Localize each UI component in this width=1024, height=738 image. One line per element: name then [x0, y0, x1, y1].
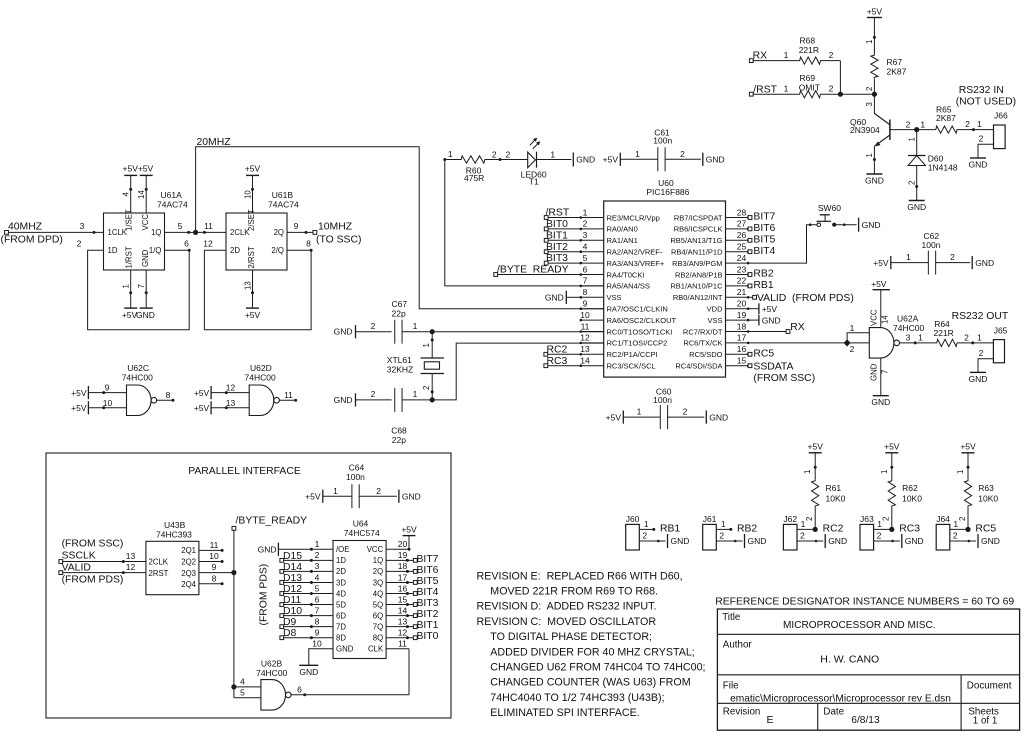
- svg-text:RE3/MCLR/Vpp: RE3/MCLR/Vpp: [607, 213, 660, 222]
- +5V supply top: [867, 6, 883, 17]
- svg-text:J66: J66: [994, 111, 1008, 121]
- wire 40MHZ to U61A pin3: [8, 221, 103, 234]
- node RC2: [823, 523, 844, 534]
- latch U64 74HC574: [333, 519, 386, 659]
- svg-text:GND: GND: [402, 491, 421, 501]
- wire U60 pin24 to SW60: [748, 223, 817, 263]
- svg-text:RS232 IN: RS232 IN: [959, 85, 1004, 96]
- svg-text:13: 13: [398, 616, 408, 626]
- wire U60 pin17 to U62A inputs: [748, 342, 847, 344]
- ground at U62A pin7: [870, 358, 891, 408]
- svg-text:8Q: 8Q: [373, 634, 383, 643]
- svg-text:1: 1: [315, 539, 320, 549]
- flip-flop U61B: [226, 190, 299, 270]
- capacitor C62 100n: [873, 231, 994, 275]
- svg-text:BIT0: BIT0: [546, 219, 568, 230]
- svg-text:E: E: [767, 714, 774, 726]
- svg-text:1: 1: [784, 50, 789, 60]
- svg-text:RB4/AN11/P1D: RB4/AN11/P1D: [671, 248, 723, 257]
- wire J62 pin1 to RC2: [797, 517, 818, 532]
- svg-text:221R: 221R: [934, 328, 954, 338]
- svg-text:RS232 OUT: RS232 OUT: [952, 311, 1009, 322]
- svg-text:5: 5: [583, 253, 588, 263]
- node D11 input to U64: [280, 595, 333, 607]
- U61A pins 1,7 bottom to +5V GND: [122, 270, 155, 320]
- svg-text:7: 7: [583, 276, 588, 286]
- svg-text:1: 1: [422, 343, 431, 347]
- node D10 input to U64: [280, 606, 333, 618]
- svg-text:GND: GND: [136, 310, 155, 320]
- svg-text:BIT4: BIT4: [417, 587, 439, 598]
- label RS232 OUT: [952, 311, 1009, 322]
- svg-text:(FROM SSC): (FROM SSC): [753, 373, 815, 384]
- svg-text:RB2/AN8/P1B: RB2/AN8/P1B: [675, 270, 723, 279]
- svg-text:2: 2: [965, 119, 970, 129]
- svg-text:10: 10: [243, 190, 252, 199]
- svg-text:GND: GND: [905, 536, 924, 546]
- connector J61: [703, 514, 717, 550]
- svg-text:RC3: RC3: [899, 523, 920, 534]
- svg-text:2: 2: [979, 348, 984, 358]
- svg-text:1: 1: [721, 519, 726, 529]
- svg-text:5: 5: [240, 687, 245, 697]
- svg-text:RC2: RC2: [823, 523, 844, 534]
- svg-text:2: 2: [829, 84, 834, 94]
- svg-text:9: 9: [105, 383, 110, 393]
- svg-text:GND: GND: [709, 412, 728, 422]
- wire J64 pin1 to RC5: [950, 517, 971, 532]
- svg-text:+5V: +5V: [194, 388, 210, 398]
- svg-text:1D: 1D: [336, 556, 346, 565]
- svg-text:MICROPROCESSOR AND MISC.: MICROPROCESSOR AND MISC.: [783, 620, 936, 631]
- svg-text:J64: J64: [936, 514, 950, 524]
- svg-text:2: 2: [829, 50, 834, 60]
- svg-text:BIT3: BIT3: [417, 598, 439, 609]
- svg-text:+5V: +5V: [123, 164, 139, 174]
- node VALID input: [59, 562, 146, 586]
- capacitor C64 100n: [305, 463, 421, 509]
- wires U62B inputs 4,5: [234, 677, 261, 698]
- svg-text:3: 3: [865, 102, 874, 106]
- svg-text:2Q: 2Q: [274, 228, 284, 237]
- svg-text:5: 5: [315, 583, 320, 593]
- node D14 input to U64: [280, 562, 333, 574]
- svg-text:PARALLEL INTERFACE: PARALLEL INTERFACE: [188, 466, 301, 477]
- svg-text:1Q: 1Q: [373, 556, 383, 565]
- svg-text:9: 9: [294, 221, 299, 231]
- node 40MHZ input: [1, 222, 63, 246]
- svg-text:VCC: VCC: [870, 309, 879, 326]
- svg-text:1/Q: 1/Q: [149, 246, 162, 255]
- node BIT0: [544, 219, 581, 231]
- node 20MHZ: [193, 137, 231, 235]
- U62D output 11: [279, 390, 297, 402]
- junction U62A inputs: [844, 339, 851, 346]
- svg-text:18: 18: [398, 561, 408, 571]
- svg-text:10K0: 10K0: [826, 494, 846, 504]
- ground at U64 pin10: [299, 649, 333, 677]
- svg-text:1Q: 1Q: [151, 228, 161, 237]
- svg-text:GND: GND: [141, 249, 150, 267]
- svg-text:GND: GND: [671, 536, 690, 546]
- svg-text:5D: 5D: [336, 600, 346, 609]
- svg-text:SW60: SW60: [818, 203, 841, 213]
- svg-text:CHANGED COUNTER (WAS U63) FROM: CHANGED COUNTER (WAS U63) FROM: [490, 677, 690, 689]
- node RB2 at U60 pin23: [748, 269, 774, 280]
- svg-text:2Q3: 2Q3: [181, 569, 196, 578]
- node /RST: [544, 208, 581, 220]
- svg-text:RC0/T1OSO/T1CKI: RC0/T1OSO/T1CKI: [607, 327, 673, 336]
- svg-text:28: 28: [737, 207, 747, 217]
- wire PIC pin7 to R60: [443, 149, 603, 286]
- svg-text:GND: GND: [981, 536, 1000, 546]
- svg-text:2: 2: [680, 149, 685, 159]
- svg-text:3: 3: [906, 333, 911, 343]
- svg-text:SSCLK: SSCLK: [62, 550, 96, 561]
- svg-text:GND: GND: [969, 160, 988, 170]
- wire U61A feedback 1/Q to 1D: [77, 239, 191, 330]
- svg-text:2: 2: [800, 531, 805, 541]
- counter U43B 74HC393: [146, 520, 199, 595]
- svg-text:RA6/OSC2/CLKOUT: RA6/OSC2/CLKOUT: [607, 316, 677, 325]
- svg-text:10: 10: [209, 551, 219, 561]
- svg-text:2K87: 2K87: [936, 113, 956, 123]
- svg-text:74HC393: 74HC393: [156, 530, 192, 540]
- U61B +5V pin 10 top: [243, 164, 260, 214]
- svg-text:RC4/SDI/SDA: RC4/SDI/SDA: [675, 362, 722, 371]
- svg-text:BIT1: BIT1: [417, 620, 439, 631]
- wire /BYTE_READY vertical: [231, 530, 236, 698]
- svg-text:74HC00: 74HC00: [245, 372, 276, 382]
- svg-text:6: 6: [184, 239, 189, 249]
- svg-text:T1: T1: [529, 177, 539, 187]
- svg-text:22: 22: [737, 276, 747, 286]
- svg-text:12: 12: [203, 239, 213, 249]
- svg-text:12: 12: [398, 628, 408, 638]
- svg-text:D8: D8: [283, 628, 297, 639]
- svg-text:20: 20: [737, 299, 747, 309]
- svg-text:3: 3: [315, 561, 320, 571]
- svg-text:74HC4040 TO 1/2 74HC393 (U43B): 74HC4040 TO 1/2 74HC393 (U43B);: [490, 692, 664, 704]
- node BIT2 output of U64: [386, 609, 439, 620]
- svg-text:+5V: +5V: [603, 155, 619, 165]
- wire U61A pin5 to 20MHZ node: [165, 221, 196, 234]
- resistor R61 10K0: [803, 453, 845, 530]
- node BIT6 output of U64: [386, 565, 439, 576]
- svg-text:6Q: 6Q: [373, 611, 383, 620]
- svg-text:1 of 1: 1 of 1: [973, 716, 998, 727]
- svg-text:GND: GND: [299, 667, 318, 677]
- svg-text:+5V: +5V: [71, 403, 87, 413]
- ground at J63: [902, 534, 924, 548]
- svg-text:100n: 100n: [922, 240, 941, 250]
- U62C output 8: [156, 390, 174, 402]
- svg-text:/OE: /OE: [336, 545, 349, 554]
- wire U43B output 2Q2: [199, 551, 224, 563]
- node BIT3 output of U64: [386, 598, 439, 609]
- U60 right pin stubs: [726, 216, 750, 367]
- wire XTAL2 to PIC pin12: [432, 343, 604, 400]
- svg-text:2: 2: [583, 219, 588, 229]
- svg-text:+5V: +5V: [960, 442, 976, 452]
- svg-text:(FROM SSC): (FROM SSC): [62, 539, 124, 550]
- wire J65 pin2 to ground: [978, 348, 993, 372]
- svg-text:2: 2: [906, 119, 911, 129]
- svg-text:GND: GND: [865, 176, 884, 186]
- svg-text:2: 2: [865, 87, 874, 91]
- svg-text:6/8/13: 6/8/13: [851, 715, 880, 726]
- node D15 input to U64: [280, 551, 333, 563]
- svg-text:+5V: +5V: [606, 412, 622, 422]
- svg-text:2: 2: [907, 181, 916, 185]
- revision notes text: [477, 570, 706, 719]
- node BIT3: [544, 253, 581, 265]
- wire U43B output 2Q4: [199, 573, 224, 585]
- node XTAL1 junction: [430, 329, 435, 334]
- node BIT7 at U60 pin28: [748, 212, 775, 223]
- svg-text:2: 2: [950, 252, 955, 262]
- U60 pin numbers left: [580, 207, 590, 365]
- svg-text:RA3/AN3/VREF+: RA3/AN3/VREF+: [607, 259, 665, 268]
- svg-text:1: 1: [448, 149, 453, 159]
- node RB1: [660, 523, 680, 534]
- svg-text:1: 1: [865, 153, 874, 157]
- switch SW60: [817, 203, 842, 227]
- svg-text:32KHZ: 32KHZ: [387, 365, 413, 375]
- resistor R62 10K0: [880, 453, 922, 530]
- node D9 input to U64: [280, 617, 333, 629]
- svg-text:11: 11: [398, 639, 407, 649]
- svg-text:11: 11: [284, 390, 293, 400]
- svg-text:RC2: RC2: [547, 344, 568, 355]
- +5V above R63: [960, 442, 976, 453]
- svg-text:9: 9: [583, 299, 588, 309]
- svg-text:VCC: VCC: [367, 545, 384, 554]
- node BIT4 at U60 pin25: [748, 246, 775, 257]
- svg-text:/BYTE_READY: /BYTE_READY: [497, 265, 569, 276]
- svg-text:GND: GND: [334, 395, 353, 405]
- svg-text:(FROM DPD): (FROM DPD): [1, 235, 63, 246]
- svg-text:1/RST: 1/RST: [125, 246, 134, 268]
- U62C input 9 +5V: [71, 383, 126, 400]
- svg-text:R67: R67: [887, 57, 903, 67]
- svg-text:2: 2: [958, 517, 967, 521]
- svg-text:+5V: +5V: [401, 524, 417, 534]
- connector J64: [936, 514, 950, 550]
- svg-text:6: 6: [315, 594, 320, 604]
- wire J60 pin2 to ground: [639, 531, 665, 543]
- svg-text:U62A: U62A: [897, 313, 919, 323]
- wire J63 pin1 to RC3: [874, 517, 895, 532]
- wire junction to Q60 collector node: [840, 92, 877, 97]
- node XTAL2 junction: [430, 397, 435, 402]
- transistor Q60 2N3904: [850, 94, 890, 174]
- svg-text:1: 1: [865, 40, 874, 44]
- svg-text:2Q: 2Q: [373, 567, 383, 576]
- svg-text:3D: 3D: [336, 578, 346, 587]
- svg-text:REVISION D: ADDED RS232 INPUT: REVISION D: ADDED RS232 INPUT.: [477, 601, 657, 613]
- wire J63 pin2 to ground: [874, 531, 900, 543]
- svg-text:/BYTE_READY: /BYTE_READY: [236, 515, 308, 526]
- connector J65: [993, 326, 1007, 363]
- resistor R63 10K0: [956, 453, 998, 530]
- svg-text:BIT6: BIT6: [753, 223, 775, 234]
- svg-text:RC7/RX/DT: RC7/RX/DT: [683, 327, 723, 336]
- svg-text:2: 2: [805, 517, 814, 521]
- node BIT7 output of U64: [386, 554, 439, 565]
- svg-text:2: 2: [77, 239, 82, 249]
- svg-text:10K0: 10K0: [978, 494, 998, 504]
- svg-text:RB6/ICSPCLK: RB6/ICSPCLK: [674, 225, 723, 234]
- svg-text:5: 5: [178, 221, 183, 231]
- svg-text:1N4148: 1N4148: [928, 163, 958, 173]
- svg-text:BIT7: BIT7: [417, 554, 439, 565]
- svg-text:15: 15: [737, 356, 747, 366]
- wire J60 pin1 to RB1: [639, 519, 655, 531]
- svg-text:R68: R68: [800, 36, 816, 46]
- svg-text:5Q: 5Q: [373, 600, 383, 609]
- svg-text:1: 1: [850, 323, 855, 333]
- svg-text:2: 2: [964, 332, 969, 342]
- label RS232 IN: [956, 85, 1016, 107]
- svg-text:RB1: RB1: [753, 280, 773, 291]
- junction Q60 base / D60 / R65: [914, 127, 919, 132]
- svg-text:19: 19: [737, 310, 747, 320]
- wire U43B output 2Q1: [199, 540, 224, 552]
- node /RST input: [749, 84, 777, 96]
- svg-text:4: 4: [122, 192, 131, 197]
- svg-text:RB1: RB1: [660, 523, 680, 534]
- svg-text:CHANGED U62 FROM 74HC04 TO 74H: CHANGED U62 FROM 74HC04 TO 74HC00;: [490, 662, 705, 674]
- svg-text:8D: 8D: [336, 634, 346, 643]
- svg-text:3: 3: [583, 230, 588, 240]
- svg-text:12: 12: [126, 562, 136, 572]
- svg-text:16: 16: [737, 344, 747, 354]
- svg-text:2Q2: 2Q2: [181, 557, 196, 566]
- svg-text:13: 13: [126, 551, 136, 561]
- svg-text:RA7/OSC1/CLKIN: RA7/OSC1/CLKIN: [607, 305, 668, 314]
- wire SW60 to ground: [834, 223, 856, 226]
- svg-text:1: 1: [644, 519, 649, 529]
- nand gate U62A 74HC00: [869, 313, 924, 358]
- wire U64 CLK pin11: [386, 648, 409, 650]
- svg-text:6D: 6D: [336, 611, 346, 620]
- U64 pin numbers: [312, 539, 407, 648]
- svg-text:VALID (FROM PDS): VALID (FROM PDS): [757, 293, 854, 304]
- svg-text:25: 25: [737, 242, 747, 252]
- svg-text:RB2: RB2: [753, 269, 773, 280]
- svg-text:RC5: RC5: [975, 523, 996, 534]
- junction R68/R69: [838, 92, 843, 97]
- svg-text:4: 4: [583, 242, 588, 252]
- capacitor C67: [334, 299, 433, 344]
- svg-text:RA2/AN2/VREF-: RA2/AN2/VREF-: [607, 248, 663, 257]
- svg-text:7: 7: [137, 284, 146, 288]
- svg-text:14: 14: [881, 315, 890, 324]
- svg-text:4: 4: [240, 677, 245, 687]
- node D13 input to U64: [280, 573, 333, 585]
- svg-text:GND: GND: [334, 327, 353, 337]
- wires U62A inputs 1,2: [847, 323, 869, 354]
- resistor R67 2K87: [865, 18, 907, 95]
- svg-text:1: 1: [583, 207, 588, 217]
- svg-text:GND: GND: [762, 315, 781, 325]
- +5V above R62: [884, 442, 900, 453]
- svg-text:+5V: +5V: [245, 310, 261, 320]
- svg-text:(NOT USED): (NOT USED): [956, 96, 1016, 107]
- svg-text:D11: D11: [283, 595, 302, 606]
- svg-text:SSDATA: SSDATA: [753, 362, 793, 373]
- svg-text:24: 24: [737, 253, 747, 263]
- svg-text:D12: D12: [283, 584, 302, 595]
- svg-text:2: 2: [371, 321, 376, 331]
- svg-text:REVISION E: REPLACED R66 WITH: REVISION E: REPLACED R66 WITH D60,: [477, 570, 683, 582]
- svg-text:GND: GND: [336, 645, 354, 654]
- svg-text:GND: GND: [576, 155, 595, 165]
- nand gate U62D: [245, 363, 280, 416]
- +5V at U60 pin20: [748, 303, 777, 314]
- svg-text:16: 16: [398, 583, 408, 593]
- svg-text:2: 2: [371, 389, 376, 399]
- svg-text:40MHZ: 40MHZ: [8, 222, 43, 233]
- wire J66 pin2 to ground: [978, 134, 994, 158]
- svg-text:2: 2: [953, 531, 958, 541]
- +5V above R61: [808, 442, 824, 453]
- svg-text:Title: Title: [722, 612, 741, 623]
- svg-text:+5V: +5V: [873, 258, 889, 268]
- node /BYTE_READY at U60 pin6: [494, 265, 581, 277]
- svg-text:1: 1: [918, 333, 923, 343]
- capacitor C60 100n: [606, 387, 729, 430]
- svg-text:1: 1: [550, 149, 555, 159]
- svg-text:+5V: +5V: [71, 388, 87, 398]
- ground at J62: [825, 534, 847, 548]
- ground at J64: [978, 534, 1000, 548]
- svg-text:+5V: +5V: [762, 304, 778, 314]
- svg-text:BIT2: BIT2: [417, 609, 439, 620]
- svg-text:ELIMINATED SPI INTERFACE.: ELIMINATED SPI INTERFACE.: [490, 707, 639, 719]
- svg-text:100n: 100n: [346, 472, 365, 482]
- connector J62: [783, 514, 797, 550]
- parallel interface enclosure: [46, 453, 451, 718]
- wire U62A output pin3: [900, 333, 936, 345]
- svg-text:13: 13: [580, 344, 590, 354]
- svg-text:BIT3: BIT3: [546, 253, 568, 264]
- svg-text:1/SET: 1/SET: [125, 209, 134, 231]
- svg-text:1D: 1D: [108, 246, 118, 255]
- svg-text:Revision: Revision: [723, 707, 761, 718]
- svg-text:1: 1: [803, 470, 812, 474]
- svg-text:10MHZ: 10MHZ: [318, 222, 353, 233]
- node BIT2: [544, 242, 581, 254]
- ground at Q60 emitter: [865, 174, 884, 186]
- svg-text:RB0/AN12/INT: RB0/AN12/INT: [673, 293, 723, 302]
- U62D input 13 +5V: [194, 398, 249, 415]
- ground at J60: [668, 534, 690, 548]
- svg-text:3Q: 3Q: [373, 578, 383, 587]
- node BIT6 at U60 pin27: [748, 223, 775, 234]
- svg-text:Date: Date: [823, 707, 844, 718]
- label FROM PDS rotated: [259, 564, 270, 626]
- +5V at U64 pin20: [386, 524, 417, 550]
- svg-text:GND: GND: [870, 363, 879, 381]
- svg-text:GND: GND: [748, 536, 767, 546]
- node D8 input to U64: [280, 628, 333, 640]
- svg-text:RC5/SDO: RC5/SDO: [689, 350, 723, 359]
- svg-text:6: 6: [297, 684, 302, 694]
- svg-text:U61A: U61A: [161, 190, 183, 200]
- svg-text:D9: D9: [283, 617, 297, 628]
